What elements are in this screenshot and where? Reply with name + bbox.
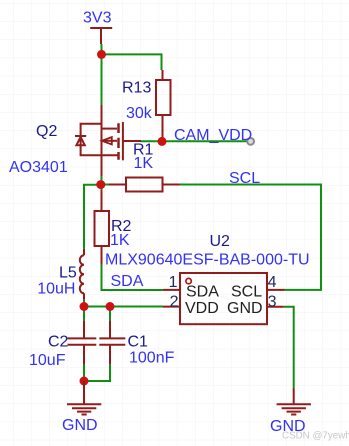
wire SCL net: R1 to U2 pin 4 [180,185,322,290]
open endpoint CAM_VDD [247,138,254,145]
svg-text:SDA: SDA [111,273,144,290]
svg-text:10uH: 10uH [37,280,75,297]
junction gate/R13/CAM_VDD [158,137,167,146]
wire: Q2 gate to junction [141,140,162,142]
svg-text:1K: 1K [110,232,130,249]
capacitor C2 [68,321,97,364]
wire: L5 to rail [83,300,85,307]
transistor Q2 (P-MOSFET AO3401) [75,105,141,176]
wire: junction to R1 [102,184,110,186]
svg-text:4: 4 [268,274,277,291]
svg-text:100nF: 100nF [129,350,175,367]
svg-text:30k: 30k [126,105,153,122]
svg-text:CSDN @7yewh: CSDN @7yewh [282,430,349,441]
svg-text:MLX90640ESF-BAB-000-TU: MLX90640ESF-BAB-000-TU [105,251,310,268]
pin 3 stub [267,306,284,308]
svg-text:Q2: Q2 [36,123,57,140]
svg-text:VDD: VDD [185,300,219,317]
wire rail to U2 pin 2 [84,306,163,308]
chip U2 MLX90640 [163,273,285,324]
wire: rail down to C2 [83,307,85,322]
wire: 3V3 junction right and down to R13 [102,54,162,70]
wire: C2 to ground junction [83,364,85,381]
wire: U2 pin 3 to ground [284,307,294,388]
svg-text:C2: C2 [48,333,69,350]
svg-text:10uF: 10uF [29,352,66,369]
svg-text:GND: GND [227,300,263,317]
wire: Q2 source down to junction [101,176,103,185]
junction VDD rail [96,180,105,189]
wire: junction left and down to L5 [84,185,102,249]
pin 4 stub [267,289,285,291]
svg-text:SCL: SCL [231,283,262,300]
svg-text:1: 1 [169,274,178,291]
capacitor C1 [99,321,125,364]
svg-text:1K: 1K [134,155,154,172]
pin 1 stub [163,289,180,291]
junction ground [80,377,89,386]
wire: rail down to C1 [109,307,111,322]
svg-text:3: 3 [268,294,277,311]
svg-text:GND: GND [62,417,98,434]
wire CAM_VDD [162,140,248,142]
pin 2 stub [163,306,180,308]
junction rail right [106,302,115,311]
ground GND right [277,388,311,415]
junction rail left [80,302,89,311]
svg-text:CAM_VDD: CAM_VDD [174,127,252,144]
wire SDA net: R2 to U2 pin 1 [102,265,164,291]
resistor R1 [109,178,180,192]
svg-text:U2: U2 [210,233,231,250]
inductor L5 [80,249,84,300]
wire: junction down to R2 [101,185,103,191]
resistor R2 [95,191,110,265]
svg-text:L5: L5 [59,265,77,282]
wire: C1 bottom to ground junction [84,364,110,381]
svg-text:R13: R13 [122,80,151,97]
power flag 3V3 [90,28,112,44]
pin 1 indicator [186,278,191,283]
ground GND left [67,381,101,415]
svg-text:SCL: SCL [229,170,260,187]
svg-text:AO3401: AO3401 [9,159,68,176]
wire: 3V3 junction to Q2 drain [101,44,103,105]
svg-text:SDA: SDA [186,283,219,300]
svg-text:3V3: 3V3 [83,10,112,27]
resistor R13 [156,70,171,141]
svg-text:2: 2 [170,293,179,310]
svg-text:C1: C1 [128,333,149,350]
junction at 3V3 [97,50,106,59]
